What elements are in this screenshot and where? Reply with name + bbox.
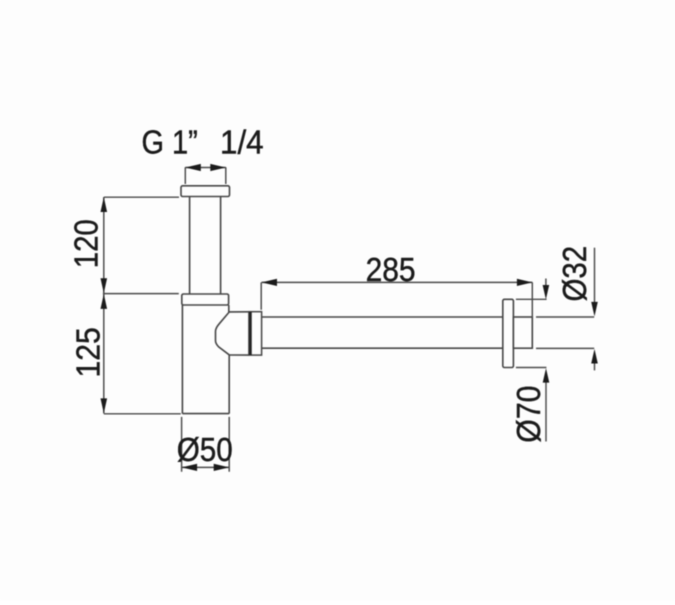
wall pipe stub: [513, 317, 532, 348]
vertical inlet pipe: [190, 197, 221, 294]
dimension leader O32 lower tail: [594, 363, 596, 370]
arrow G dim right: [210, 164, 226, 171]
arrow 285 left: [262, 279, 278, 286]
svg-text:Ø70: Ø70: [510, 386, 547, 443]
extension line 285 right: [531, 282, 533, 317]
dimension line 285: [262, 281, 533, 283]
svg-text:G 1”: G 1”: [142, 124, 198, 161]
arrow 120 up: [101, 197, 108, 212]
top inlet flange (G 1" 1/4 connection): [181, 186, 230, 197]
dimension leader O70 upper tail: [545, 279, 547, 287]
dimension leader O70 lower tail: [545, 382, 547, 442]
extension line at body bottom: [104, 413, 181, 415]
arrow O32 up: [591, 349, 598, 364]
arrow O70 down: [543, 285, 550, 299]
horizontal outlet pipe (Ø32): [262, 317, 503, 348]
extension line 285 left: [260, 282, 262, 309]
arrow O32 down: [591, 302, 598, 317]
compression nut: [249, 312, 262, 355]
wall flange escutcheon (Ø70): [503, 299, 514, 367]
svg-text:Ø50: Ø50: [177, 431, 233, 468]
dimension line G 1" 1/4 flange width: [185, 167, 226, 169]
dimension line O50: [182, 466, 230, 468]
extension line flange bottom: [516, 367, 547, 369]
arrow G dim left: [185, 164, 201, 171]
svg-text:285: 285: [366, 251, 416, 288]
arrow 125 down: [101, 398, 108, 413]
outlet elbow: [216, 312, 249, 355]
extension line pipe top: [536, 316, 594, 318]
extension line at body top: [103, 293, 179, 295]
arrow O70 up: [543, 368, 550, 382]
extension lines O50: [182, 417, 230, 472]
extension lines G dimension: [185, 167, 226, 184]
extension line at flange bottom: [104, 196, 179, 198]
arrow 125 up: [101, 294, 108, 309]
dimension leader O32 upper tail: [594, 248, 596, 303]
arrow 285 right: [517, 279, 533, 286]
svg-text:1/4: 1/4: [220, 124, 264, 161]
svg-text:125: 125: [70, 327, 107, 377]
arrow 120 down: [101, 278, 108, 293]
arrow O50 left: [182, 464, 198, 471]
dimension line 120 / 125 vertical: [103, 197, 105, 413]
extension line pipe bottom: [536, 347, 594, 349]
extension line flange top: [516, 298, 547, 300]
trap body cup (Ø50): [182, 305, 229, 414]
svg-text:120: 120: [68, 219, 105, 268]
nut joint line: [249, 312, 252, 355]
svg-text:Ø32: Ø32: [556, 246, 593, 302]
trap body cap: [182, 294, 229, 305]
arrow O50 right: [214, 464, 230, 471]
